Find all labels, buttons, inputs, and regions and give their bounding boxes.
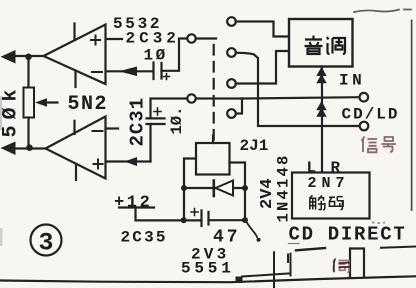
dashed mechanical link [213, 45, 215, 142]
pen strokes over 伺 [334, 259, 350, 272]
arrow feedback U1b [125, 157, 138, 166]
switch contact hook Q [245, 220, 257, 237]
terminal T5 [227, 79, 236, 88]
waveform stub [287, 255, 289, 263]
tone box U2 [289, 19, 353, 67]
bottom rule line [0, 276, 416, 282]
capacitor 2C31 [147, 118, 165, 124]
terminal CD/LD [360, 122, 369, 131]
terminal T4 [227, 48, 236, 57]
wire C35 to relay lead [209, 219, 246, 221]
op-amp U1a top power pin [73, 24, 75, 41]
node dot C35 left [181, 217, 187, 223]
waveform pulse [350, 249, 364, 278]
svg-text:CD/LD: CD/LD [342, 106, 400, 124]
svg-text:2C31: 2C31 [127, 97, 149, 147]
wire U1b output to left [12, 147, 46, 149]
wire U1a output to left [12, 55, 44, 57]
wire servo vertical 2 [290, 254, 292, 276]
relay 2J1 coil [196, 143, 230, 175]
wire C31 bottom to U1b [149, 124, 151, 162]
op-amp U1b (5532) [46, 117, 106, 179]
scan speckle dots [372, 222, 385, 225]
wire servo diagonal from pad [242, 273, 291, 276]
svg-text:47: 47 [213, 228, 241, 248]
wire C32 to terminal [162, 39, 188, 71]
wire T5 to tone box lower input [236, 51, 289, 84]
node junction dot A [25, 54, 32, 61]
wire T4 to CD/LD net [236, 53, 360, 126]
svg-text:5N2: 5N2 [68, 93, 109, 116]
wire U1b +input to C31 [106, 160, 151, 162]
op-amp U1a (5532) [44, 25, 106, 85]
arrow up 2 [316, 101, 326, 117]
text 音调 (tone) [305, 36, 346, 55]
wire relay right lead [230, 163, 246, 221]
diode 2V4 1N4148 [214, 181, 233, 197]
arrow left (output R) [1, 142, 16, 156]
wire diode net [184, 187, 245, 189]
text 解码 (decode) [310, 195, 344, 209]
svg-text:IN: IN [339, 72, 365, 90]
svg-text:CD DIRECT: CD DIRECT [289, 224, 407, 246]
arrow up 1 [316, 67, 326, 83]
terminal T2 [187, 94, 195, 102]
svg-text:2C32: 2C32 [126, 30, 180, 48]
svg-text:1Ø: 1Ø [144, 47, 168, 65]
waveform line right [381, 247, 416, 248]
terminal T3 [227, 17, 236, 26]
node dot diode left [181, 185, 187, 191]
node dot C35 right [242, 217, 248, 223]
capacitor 2C32 [154, 63, 162, 80]
text 伺 (servo, faint red) [333, 259, 349, 273]
wire U1a +input stub [106, 38, 122, 40]
wire T1 right [196, 37, 216, 39]
svg-text:+12: +12 [114, 194, 152, 213]
circled figure number 3 [31, 225, 62, 256]
wire IN net [196, 97, 360, 98]
op-amp U1a bottom power pin [74, 71, 76, 88]
wire T6 riser to IN net [236, 99, 242, 114]
wire U1a -input to C32 [106, 70, 152, 72]
text 信号 (signal, red) [362, 137, 397, 153]
wire relay left lead [184, 159, 196, 221]
terminal T1 [187, 34, 195, 42]
op-amp U1b top power pin [73, 121, 75, 134]
svg-text:2J1: 2J1 [240, 137, 269, 155]
svg-text:1Ø.: 1Ø. [168, 107, 186, 135]
relay top pin [212, 136, 214, 144]
svg-text:2C35: 2C35 [121, 229, 168, 247]
scan streak left edge 2 [0, 228, 3, 246]
svg-text:1N4148: 1N4148 [275, 153, 293, 222]
op-amp U1b bottom power pin [75, 164, 77, 180]
svg-text:5Øk: 5Øk [0, 83, 23, 137]
decoder box U3 [292, 173, 370, 219]
arrow feedback U1a [119, 67, 137, 77]
arrow left (output L) [1, 50, 16, 64]
scan artifact right vertical line [411, 21, 413, 211]
waveform low line left [296, 248, 325, 250]
wire C31 top to terminal [151, 99, 188, 119]
scan streak left edge 1 [0, 96, 2, 130]
svg-text:5551: 5551 [181, 260, 235, 278]
terminal T6 [227, 109, 236, 118]
wire T3 to tone box [236, 22, 289, 37]
capacitor 2C35 [202, 211, 209, 227]
solder pad square [236, 277, 243, 284]
faint dash [289, 243, 300, 245]
wire U1b -input stub [106, 127, 118, 129]
wire servo vertical 1 [273, 252, 275, 288]
node dot diode right [242, 185, 248, 191]
node junction dot B [26, 144, 33, 151]
svg-text:2N7: 2N7 [308, 175, 350, 192]
+12 supply bar [119, 206, 154, 208]
svg-text:3: 3 [39, 229, 54, 258]
wire tone box output down [321, 67, 323, 173]
terminal IN [360, 93, 369, 102]
wire +12 drop [136, 208, 202, 221]
scan artifact top wavy line [354, 10, 411, 13]
potentiometer 50k [24, 60, 58, 148]
